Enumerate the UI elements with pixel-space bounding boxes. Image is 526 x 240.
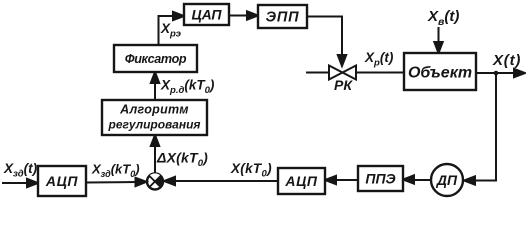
svg-text:АЦП: АЦП — [45, 173, 79, 189]
block Фиксатор — [114, 45, 197, 72]
wire ДП to ППЭ — [403, 175, 431, 183]
block ЭПП — [258, 5, 307, 28]
wire ЦАП to ЭПП — [229, 11, 258, 19]
wire АЦП to summing junction — [164, 177, 278, 185]
wire Алгоритм up to Фиксатор — [151, 72, 159, 100]
wire output X(t) — [476, 69, 525, 77]
wire ППЭ to АЦП (feedback) — [325, 176, 358, 184]
svg-text:Алгоритм: Алгоритм — [119, 103, 189, 117]
pipe wire through valve to Объект — [306, 72, 404, 74]
wire ЭПП to valve РК — [307, 17, 346, 67]
svg-text:Фиксатор: Фиксатор — [125, 52, 187, 66]
wire from Фиксатор up into ЦАП — [159, 12, 185, 45]
svg-text:ДП: ДП — [436, 172, 458, 188]
svg-text:ЭПП: ЭПП — [266, 10, 300, 26]
valve РК — [329, 66, 356, 80]
wire summing junction up to Алгоритм — [151, 135, 159, 173]
svg-text:ППЭ: ППЭ — [365, 171, 395, 187]
block ЦАП — [184, 4, 229, 25]
block Объект — [404, 53, 476, 90]
wire АЦП to summing junction (setpoint) — [86, 178, 147, 186]
wire feedback down to ДП — [464, 73, 496, 185]
svg-text:АЦП: АЦП — [284, 173, 318, 189]
svg-text:Объект: Объект — [408, 65, 472, 82]
block ППЭ — [358, 166, 403, 191]
summing junction comparator — [147, 173, 163, 189]
wire disturbance into Объект — [434, 27, 442, 53]
svg-text:X(t): X(t) — [492, 52, 521, 69]
block Алгоритм регулирования — [102, 100, 207, 135]
node junction dot — [494, 71, 499, 76]
wire setpoint input — [2, 179, 38, 187]
block АЦП feedback — [278, 168, 325, 194]
svg-text:РК: РК — [334, 77, 353, 93]
block АЦП setpoint — [38, 166, 86, 196]
svg-text:регулирования: регулирования — [108, 118, 201, 132]
svg-text:ЦАП: ЦАП — [191, 7, 222, 23]
sensor circle ДП — [431, 164, 463, 196]
